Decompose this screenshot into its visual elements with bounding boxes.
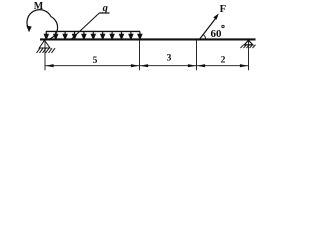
svg-text:g: g xyxy=(102,3,108,14)
svg-text:M: M xyxy=(34,1,44,12)
svg-text:3: 3 xyxy=(167,53,172,63)
svg-text:2: 2 xyxy=(221,55,226,65)
svg-text:5: 5 xyxy=(93,56,98,66)
svg-text:60: 60 xyxy=(211,28,223,40)
svg-text:F: F xyxy=(220,4,226,15)
